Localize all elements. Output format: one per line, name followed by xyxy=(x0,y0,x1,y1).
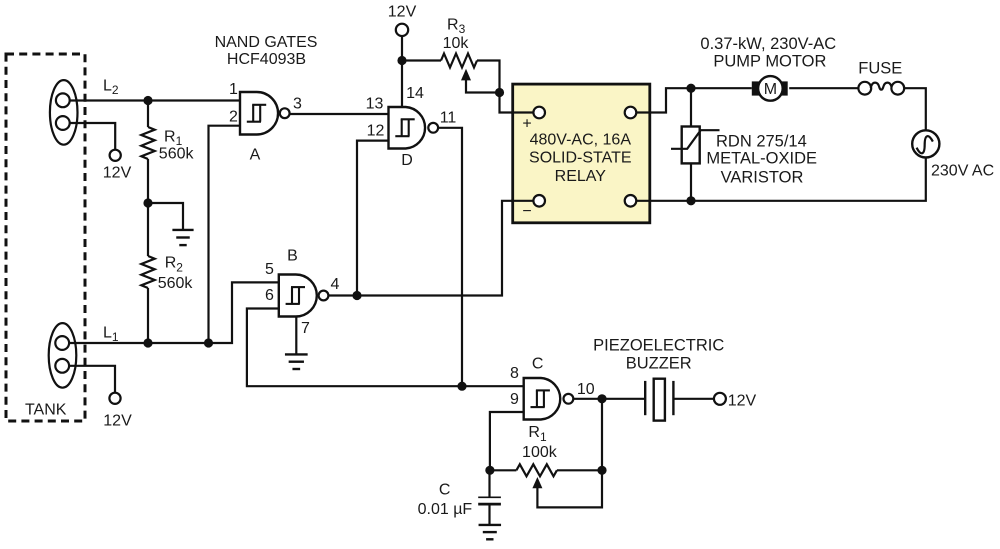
wire motor to fuse xyxy=(789,87,858,89)
label R2 xyxy=(165,255,184,275)
wire cap bottom lead xyxy=(488,504,490,525)
label PIEZOELECTRIC xyxy=(593,337,724,355)
node pot left junction xyxy=(485,466,494,475)
relay terminal top-right xyxy=(625,107,637,119)
svg-text:−: − xyxy=(522,203,531,220)
node R1/R2/ground junction xyxy=(143,198,152,207)
label pin 11 xyxy=(440,110,457,127)
node 12V/R3 junction xyxy=(397,56,406,65)
wire to motor xyxy=(691,87,752,89)
wire L2 line xyxy=(70,99,240,101)
svg-text:FUSE: FUSE xyxy=(858,60,902,78)
svg-text:C: C xyxy=(532,356,544,373)
ground G2 (pin7) xyxy=(285,354,308,369)
svg-text:2: 2 xyxy=(229,109,238,126)
svg-text:10: 10 xyxy=(577,381,595,398)
probe L1 contact upper xyxy=(55,336,69,350)
motor M1 pads xyxy=(752,81,788,95)
svg-text:A: A xyxy=(250,147,261,164)
svg-text:VARISTOR: VARISTOR xyxy=(721,168,804,186)
label HCF4093B xyxy=(227,51,306,68)
label 100k xyxy=(522,444,558,461)
buzzer BZ1 right plate xyxy=(672,381,674,415)
label gate B xyxy=(287,248,298,265)
label pin 13 xyxy=(366,96,384,113)
label C value 0.01 uF xyxy=(418,501,473,518)
svg-text:RELAY: RELAY xyxy=(555,168,607,185)
relay terminal - (bottom-left) xyxy=(533,195,545,207)
node varistor bottom junction xyxy=(686,196,695,205)
label 12V (L2 probe) xyxy=(103,165,132,182)
wire gate B out to relay minus xyxy=(329,201,534,296)
label 12V (buzzer) xyxy=(728,393,757,410)
svg-text:+: + xyxy=(522,116,531,133)
svg-text:12V: 12V xyxy=(103,165,132,182)
wire R3 to relay + xyxy=(500,93,534,113)
svg-text:12V: 12V xyxy=(388,4,417,21)
wire fuse to AC source xyxy=(904,88,926,130)
resistor R1 560k xyxy=(141,127,154,159)
varistor RV1 body xyxy=(682,127,700,164)
svg-text:C: C xyxy=(439,482,451,499)
wire C out down riser xyxy=(601,399,603,471)
probe L2 contact upper xyxy=(56,93,70,107)
probe electrode L1 (ellipse) xyxy=(49,323,77,388)
ground G3 (cap) xyxy=(479,525,502,539)
wire 12V to pin14 xyxy=(401,36,403,107)
svg-text:560k: 560k xyxy=(159,146,195,163)
NAND gate B (HCF4093B, pins 5-6-4) xyxy=(279,275,329,317)
wire AC source bottom run xyxy=(636,158,926,201)
label relay line2 xyxy=(529,150,632,167)
svg-text:B: B xyxy=(287,248,298,265)
wire to ground G1 xyxy=(148,203,183,230)
svg-text:6: 6 xyxy=(265,287,274,304)
label pin 1 xyxy=(229,81,238,98)
wire varistor bottom lead xyxy=(690,163,692,200)
svg-text:BUZZER: BUZZER xyxy=(626,355,692,373)
svg-text:7: 7 xyxy=(301,320,310,337)
svg-text:10k: 10k xyxy=(443,35,470,52)
label pin 10 xyxy=(577,381,595,398)
svg-text:100k: 100k xyxy=(522,444,558,461)
wire + terminal stub (inside box) xyxy=(511,111,534,113)
wire gate A pin2 riser xyxy=(209,126,241,343)
probe L1 contact lower xyxy=(55,359,69,373)
node L2/R1 junction xyxy=(143,96,152,105)
varistor RV1 diagonal xyxy=(671,130,720,149)
wire probe L2 to 12V xyxy=(70,123,116,150)
wire probe L1 to 12V xyxy=(69,366,115,393)
label R1 value 560k xyxy=(159,146,195,163)
pot wiper arrow xyxy=(532,470,602,507)
svg-text:12V: 12V xyxy=(103,413,132,430)
wire gate A out to gate D pin13 xyxy=(290,113,389,115)
label C xyxy=(439,482,451,499)
wire L1 line to gate B pin5 xyxy=(69,282,279,343)
label 230V AC xyxy=(931,163,994,180)
svg-text:14: 14 xyxy=(406,85,424,102)
label pin 12 xyxy=(367,123,385,140)
label varistor line3 xyxy=(721,168,804,186)
wire pot right lead xyxy=(557,469,602,471)
label relay - xyxy=(522,203,531,220)
label motor line1 xyxy=(700,35,836,53)
label R3 xyxy=(447,17,466,37)
svg-text:PIEZOELECTRIC: PIEZOELECTRIC xyxy=(593,337,724,355)
label L2 xyxy=(103,78,119,98)
svg-text:0.01 µF: 0.01 µF xyxy=(418,501,473,518)
label R1 (pot) xyxy=(528,424,547,444)
label relay + xyxy=(522,116,531,133)
svg-text:TANK: TANK xyxy=(25,401,67,418)
svg-text:D: D xyxy=(401,152,413,169)
resistor R2 560k xyxy=(141,256,154,288)
svg-text:13: 13 xyxy=(366,96,384,113)
AC source V1 230V xyxy=(912,130,939,157)
buzzer BZ1 left plate xyxy=(644,381,646,415)
label pin 14 xyxy=(406,85,424,102)
label varistor line1 xyxy=(716,133,807,151)
wire R2 bottom lead xyxy=(147,288,149,343)
label pin 8 xyxy=(510,365,519,382)
svg-text:11: 11 xyxy=(440,110,457,127)
terminal 12V (top) xyxy=(396,24,408,36)
svg-text:9: 9 xyxy=(510,391,519,408)
svg-text:NAND GATES: NAND GATES xyxy=(215,34,318,51)
label pin 5 xyxy=(265,261,274,278)
node pot right junction xyxy=(597,466,606,475)
label NAND GATES xyxy=(215,34,318,51)
wire gate C pin9 xyxy=(490,412,524,470)
relay terminal bottom-right xyxy=(625,195,637,207)
terminal 12V (L1 probe) xyxy=(109,393,120,404)
svg-text:RDN 275/14: RDN 275/14 xyxy=(716,133,807,151)
svg-text:M: M xyxy=(764,81,777,98)
node motor-line junction xyxy=(686,84,695,93)
solid-state relay box xyxy=(513,84,650,223)
label pin 7 xyxy=(301,320,310,337)
node gate B out junction xyxy=(352,291,361,300)
svg-text:5: 5 xyxy=(265,261,274,278)
relay terminal + (top-left) xyxy=(533,107,545,119)
svg-text:1: 1 xyxy=(229,81,238,98)
tank enclosure (dashed) xyxy=(6,54,85,421)
svg-text:230V AC: 230V AC xyxy=(931,163,994,180)
wire R1 top lead xyxy=(147,101,149,128)
label L1 xyxy=(103,325,119,345)
terminal 12V (buzzer) xyxy=(714,393,726,405)
wire gate D out riser xyxy=(438,128,462,386)
buzzer BZ1 crystal xyxy=(654,379,665,421)
node L1/R2 junction xyxy=(143,338,152,347)
label relay line1 xyxy=(530,132,632,149)
wire buzzer to 12V xyxy=(673,398,714,400)
svg-text:HCF4093B: HCF4093B xyxy=(227,51,306,68)
wire - terminal stub (inside box) xyxy=(511,200,534,202)
label varistor line2 xyxy=(706,150,817,168)
wire gate C out xyxy=(574,398,646,400)
fuse F1 right contact xyxy=(891,82,904,95)
svg-text:560k: 560k xyxy=(158,275,194,292)
probe electrode L2 (ellipse) xyxy=(50,80,78,145)
wire gate D pin12 riser xyxy=(357,141,389,296)
wire R3 left lead xyxy=(402,59,441,61)
svg-text:4: 4 xyxy=(331,276,340,293)
label motor line2 xyxy=(713,52,826,70)
wire gate B pin7 stem xyxy=(295,317,297,355)
label R2 value 560k xyxy=(158,275,194,292)
fuse F1 left contact xyxy=(858,82,871,95)
fuse F1 element xyxy=(871,83,892,90)
wire pot left lead xyxy=(490,469,517,471)
resistor R3 10k (pot) xyxy=(441,54,477,68)
terminal 12V (L2 probe) xyxy=(110,150,121,161)
resistor R1 100k (pot) xyxy=(516,464,557,476)
label gate A xyxy=(250,147,261,164)
capacitor C 0.01uF xyxy=(478,497,501,504)
svg-text:12V: 12V xyxy=(728,393,757,410)
label R1 xyxy=(164,129,183,149)
node D-out / C-in8 junction xyxy=(457,382,466,391)
wire cap top lead xyxy=(488,470,490,496)
wire relay TR to top rail xyxy=(636,88,691,112)
node C out junction xyxy=(597,394,606,403)
motor M1 (pump motor) xyxy=(758,76,783,101)
label BUZZER xyxy=(626,355,692,373)
ground G1 xyxy=(172,230,193,245)
NAND gate C (HCF4093B, pins 8-9-10) xyxy=(524,378,574,420)
node L1/pin2-riser junction xyxy=(204,338,213,347)
wire varistor top lead xyxy=(690,88,692,126)
NAND gate D (HCF4093B, pins 13-12-11) xyxy=(389,107,439,149)
label pin 9 xyxy=(510,391,519,408)
svg-text:480V-AC, 16A: 480V-AC, 16A xyxy=(530,132,632,149)
label TANK xyxy=(25,401,67,418)
svg-text:SOLID-STATE: SOLID-STATE xyxy=(529,150,632,167)
svg-text:METAL-OXIDE: METAL-OXIDE xyxy=(706,150,817,168)
probe L2 contact lower xyxy=(56,116,70,130)
svg-text:0.37-kW, 230V-AC: 0.37-kW, 230V-AC xyxy=(700,35,836,53)
label gate C xyxy=(532,356,544,373)
svg-text:8: 8 xyxy=(510,365,519,382)
label FUSE xyxy=(858,60,902,78)
label 12V (top) xyxy=(388,4,417,21)
label pin 4 xyxy=(331,276,340,293)
node R3 wiper junction xyxy=(495,88,504,97)
wire gate B pin6 to gate C pin8 xyxy=(247,309,524,387)
label pin 6 xyxy=(265,287,274,304)
svg-text:3: 3 xyxy=(293,96,302,113)
label pin 3 xyxy=(293,96,302,113)
R3 wiper arrow xyxy=(461,69,500,93)
label 12V (L1 probe) xyxy=(103,413,132,430)
NAND gate A (HCF4093B, pins 1-2-3) xyxy=(240,92,290,135)
label pin 2 xyxy=(229,109,238,126)
wire R1 bottom to R2 top xyxy=(147,159,149,256)
wire R3 right lead xyxy=(477,61,500,93)
svg-text:12: 12 xyxy=(367,123,385,140)
label relay line3 xyxy=(555,168,607,185)
label R3 value 10k xyxy=(443,35,470,52)
svg-text:PUMP MOTOR: PUMP MOTOR xyxy=(713,52,826,70)
label gate D xyxy=(401,152,413,169)
